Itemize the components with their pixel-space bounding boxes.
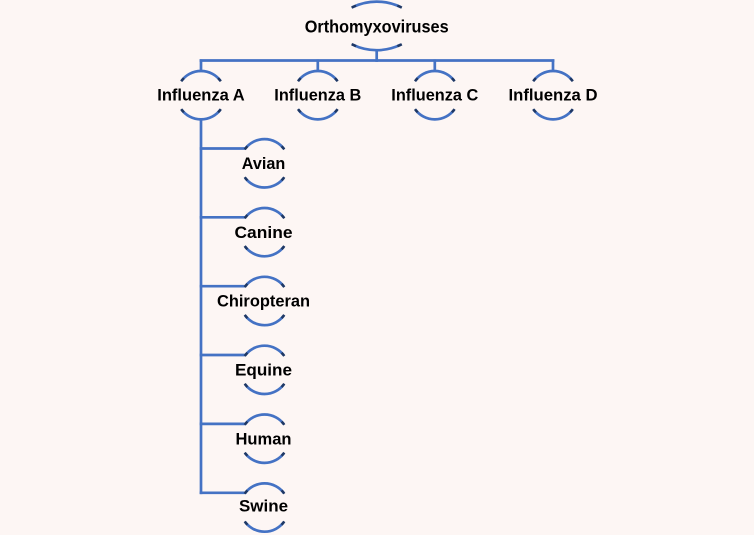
wire: drop to Influenza B [316, 59, 319, 71]
svg-text:Influenza C: Influenza C [391, 86, 478, 105]
wire: stub to Avian [200, 147, 246, 150]
Avian node: top arc [245, 139, 284, 149]
svg-text:Avian: Avian [242, 154, 286, 173]
svg-text:Influenza D: Influenza D [509, 86, 598, 105]
Influenza C node: bottom arc dark tips [415, 109, 455, 112]
svg-text:Equine: Equine [235, 361, 292, 380]
svg-text:Canine: Canine [235, 223, 293, 242]
wire: stub to Human [200, 423, 246, 426]
Influenza A node: top arc dark tips [181, 78, 221, 81]
Chiropteran node: top arc dark tips [245, 284, 285, 287]
Swine node: bottom arc [245, 522, 284, 532]
Influenza A node: bottom arc dark tips [181, 109, 221, 112]
Orthomyxoviruses node: top arc dark tips [352, 6, 402, 8]
Influenza D node: bottom arc dark tips [533, 109, 573, 112]
Influenza C node: top arc dark tips [415, 78, 455, 81]
svg-text:Orthomyxoviruses: Orthomyxoviruses [305, 16, 449, 36]
wire: drop to Influenza A [200, 59, 203, 71]
Swine node: top arc [245, 483, 284, 493]
Chiropteran node: top arc [245, 277, 284, 287]
Swine node: top arc dark tips [245, 490, 285, 493]
Human node: top arc dark tips [245, 422, 285, 425]
Influenza A node: bottom arc [182, 110, 221, 120]
Canine node: top arc [245, 208, 284, 218]
Orthomyxoviruses node: bottom arc dark tips [352, 44, 402, 46]
svg-text:Influenza B: Influenza B [274, 86, 361, 105]
Canine node: bottom arc [245, 247, 284, 257]
Influenza B node: top arc [299, 71, 338, 81]
Influenza D node: bottom arc [534, 110, 573, 120]
svg-text:Human: Human [236, 429, 292, 448]
wire: stub to Canine [200, 216, 246, 219]
Influenza B node: bottom arc dark tips [298, 109, 338, 112]
wire: root stub down from Orthomyxoviruses [375, 50, 378, 62]
wire: drop to Influenza C [433, 59, 436, 71]
Human node: bottom arc [245, 453, 284, 463]
Influenza D node: top arc [534, 71, 573, 81]
Avian node: bottom arc [245, 178, 284, 188]
Avian node: bottom arc dark tips [245, 177, 285, 180]
Orthomyxoviruses node: bottom arc (flat) [353, 45, 401, 51]
Influenza C node: bottom arc [416, 110, 455, 120]
wire: drop to Influenza D [552, 59, 555, 71]
svg-text:Chiropteran: Chiropteran [217, 292, 310, 311]
Influenza A node: top arc [182, 71, 221, 81]
Influenza B node: top arc dark tips [298, 78, 338, 81]
Equine node: top arc dark tips [245, 353, 285, 356]
Influenza B node: bottom arc [299, 110, 338, 120]
Chiropteran node: bottom arc [245, 316, 284, 326]
Human node: top arc [245, 414, 284, 424]
wire: stub to Chiropteran [200, 285, 246, 288]
Equine node: bottom arc dark tips [245, 384, 285, 387]
Influenza C node: top arc [416, 71, 455, 81]
Orthomyxoviruses node: top arc (flat) [353, 2, 401, 8]
Influenza D node: top arc dark tips [533, 78, 573, 81]
Canine node: top arc dark tips [245, 215, 285, 218]
Chiropteran node: bottom arc dark tips [245, 315, 285, 318]
Human node: bottom arc dark tips [245, 453, 285, 456]
Avian node: top arc dark tips [245, 146, 285, 149]
Equine node: top arc [245, 346, 284, 356]
Swine node: bottom arc dark tips [245, 521, 285, 524]
wire: trunk below Influenza A [200, 119, 203, 494]
Canine node: bottom arc dark tips [245, 246, 285, 249]
svg-text:Swine: Swine [239, 497, 288, 516]
wire: stub to Equine [200, 354, 246, 357]
wire: horizontal rail under root [200, 59, 555, 62]
svg-text:Influenza A: Influenza A [157, 86, 245, 105]
Equine node: bottom arc [245, 384, 284, 394]
wire: stub to Swine [200, 491, 246, 494]
